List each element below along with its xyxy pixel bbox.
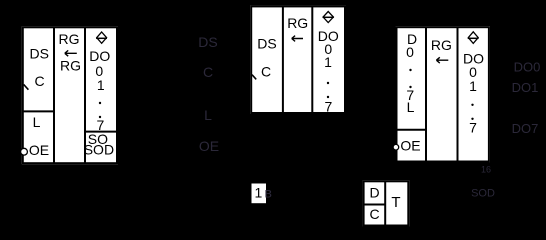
DD1 serial-out section divider [85, 131, 117, 133]
svg-text:C: C [369, 206, 379, 222]
DD3 column divider 2 [457, 27, 459, 161]
DD3 open-collector output symbol [468, 32, 479, 44]
DD4 D/C cell divider [364, 204, 386, 206]
figure label 1 background [252, 184, 267, 204]
DD4 input/output divider [384, 181, 386, 225]
svg-text:DO7: DO7 [512, 121, 539, 136]
DD3 ellipsis dot [471, 118, 473, 120]
svg-text:RG: RG [60, 58, 81, 74]
DD2 column divider 1 [282, 6, 284, 113]
DD3 ellipsis dot [409, 86, 411, 88]
DD2 open-collector output symbol [323, 12, 334, 23]
svg-text:16: 16 [481, 165, 491, 175]
DD3 ellipsis dot [471, 104, 473, 106]
DD3 inversion circle at OE [393, 144, 399, 150]
shift register DD2 body [250, 5, 346, 114]
svg-text:SOD: SOD [84, 142, 114, 158]
svg-text:1: 1 [255, 185, 263, 201]
svg-text:C: C [203, 64, 213, 80]
svg-text:1: 1 [97, 77, 105, 93]
svg-text:RG: RG [431, 37, 452, 53]
DD1 column divider 2 [84, 27, 86, 163]
svg-text:1: 1 [469, 78, 477, 94]
svg-text:SOD: SOD [471, 188, 495, 200]
DD1 column divider 1 [53, 27, 55, 163]
svg-text:1: 1 [324, 54, 332, 70]
DD2 dynamic input tick at C [252, 75, 256, 80]
svg-text:RG: RG [287, 15, 308, 31]
DD2 column divider 2 [311, 6, 313, 113]
svg-text:C: C [35, 73, 45, 89]
svg-text:T: T [391, 194, 400, 211]
DD1 dynamic input tick at C [24, 84, 29, 89]
svg-text:L: L [33, 114, 41, 130]
svg-text:OE: OE [199, 138, 219, 154]
DD3 shift direction arrow [436, 57, 448, 63]
svg-text:RG: RG [59, 31, 80, 47]
DD1 ellipsis dot [99, 116, 101, 118]
DD3 ellipsis dot [409, 69, 411, 71]
DD2 shift direction arrow [292, 36, 303, 42]
D-trigger DD4 body [363, 180, 410, 226]
DD1 shift direction arrow [65, 50, 77, 56]
svg-text:C: C [261, 64, 271, 80]
svg-text:L: L [407, 99, 415, 115]
svg-text:OE: OE [29, 142, 49, 158]
svg-text:DS: DS [198, 34, 217, 50]
svg-text:D: D [370, 185, 380, 201]
DD1 control section divider [23, 110, 54, 112]
svg-text:7: 7 [325, 99, 333, 115]
DD3 column divider 1 [425, 27, 427, 161]
svg-text:DS: DS [257, 36, 276, 52]
svg-text:7: 7 [469, 119, 477, 135]
svg-text:DO: DO [89, 48, 110, 64]
svg-text:в: в [265, 185, 272, 201]
shift register DD1 body [22, 26, 118, 164]
shift register DD3 body [396, 26, 490, 162]
DD1 ellipsis dot [99, 102, 101, 104]
DD2 ellipsis dot [327, 82, 329, 84]
svg-text:DO1: DO1 [512, 80, 539, 95]
svg-text:DO0: DO0 [514, 60, 541, 75]
svg-text:L: L [204, 107, 212, 123]
DD1 open-collector output symbol [96, 32, 107, 43]
DD3 control section divider [397, 129, 427, 131]
DD1 inversion circle at OE [21, 148, 28, 155]
svg-text:0: 0 [406, 44, 414, 60]
DD2 ellipsis dot [327, 96, 329, 98]
svg-text:OE: OE [400, 138, 420, 154]
svg-text:DS: DS [29, 46, 48, 62]
